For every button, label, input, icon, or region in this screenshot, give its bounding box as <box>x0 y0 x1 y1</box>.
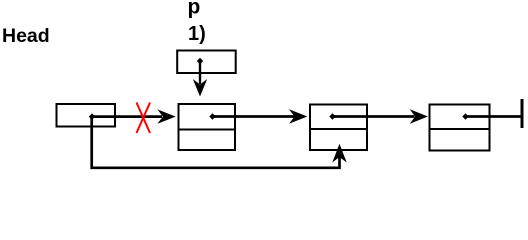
red X crossing deleted link <box>137 103 151 134</box>
bypass wire from head around to node 3 <box>92 117 340 168</box>
node 4 pointer dot <box>462 113 468 119</box>
node 2 box <box>179 104 236 150</box>
node 2 divider <box>178 129 237 131</box>
arrow from node 2 to node 3 <box>213 115 296 118</box>
null terminator bar <box>521 99 524 128</box>
arrow from p down to node 2 <box>199 61 201 84</box>
head pointer dot <box>89 113 95 119</box>
svg-text:1): 1) <box>188 23 206 45</box>
bypass arrowhead into node 3 <box>332 144 346 163</box>
null terminator line from node 4 <box>466 115 522 118</box>
arrow from node 3 to node 4 <box>333 115 415 118</box>
svg-text:p: p <box>188 0 201 19</box>
p pointer box <box>177 51 236 74</box>
svg-text:Head: Head <box>2 25 50 47</box>
node 4 box <box>430 105 490 151</box>
node 3 divider <box>309 128 368 130</box>
node 3 pointer dot <box>329 113 335 119</box>
arrow from head to node 2 (deleted link) <box>92 115 162 118</box>
node 3 box <box>310 105 367 151</box>
node 4 divider <box>429 128 491 130</box>
node 2 pointer dot <box>209 113 215 119</box>
head pointer box <box>57 104 116 127</box>
p pointer dot <box>197 58 203 64</box>
